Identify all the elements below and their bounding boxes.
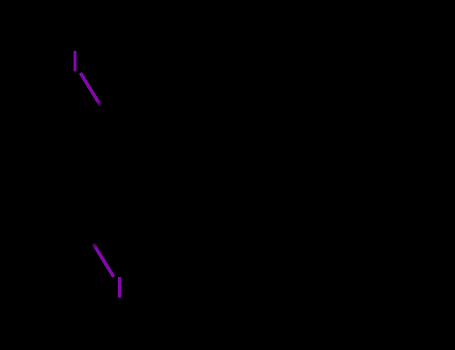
bond I1-C1, carbon-colored half (black, invisible on black background) — [101, 106, 122, 139]
bond I2-C2, iodine-colored half — [93, 244, 113, 277]
bond I1-C1, iodine-colored half — [80, 73, 100, 106]
iodine atom label I1 (top) — [74, 51, 77, 72]
iodine atom label I2 (bottom) — [118, 277, 121, 298]
bond I2-C2, carbon-colored half (black, invisible on black background) — [73, 211, 93, 244]
